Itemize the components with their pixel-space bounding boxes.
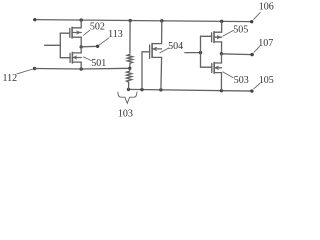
wire gate lead Q502 [60, 32, 70, 34]
wire input stub (inverter 1) [45, 44, 61, 46]
wire 505 drain to rail [221, 21, 223, 32]
wire 504 gate to bottom rail [142, 52, 150, 90]
terminal 107 dot [250, 53, 253, 56]
transistor Q504 bottom contact [152, 56, 162, 58]
svg-text:103: 103 [118, 108, 133, 119]
transistor Q505 bulk lead [214, 36, 222, 38]
transistor Q502 channel bar [71, 27, 73, 38]
label 505 leader [223, 30, 234, 36]
label 106 leader [254, 13, 261, 20]
node inverter 2 gate tie [199, 51, 202, 54]
resistor R lower (of divider 103) [127, 68, 132, 89]
wire 505 source down to node 107 [221, 42, 223, 54]
node common drain 501/502 [80, 45, 83, 48]
transistor Q503 bulk lead [214, 67, 221, 69]
terminal 105 dot [250, 89, 253, 92]
transistor Q502 gate bar [69, 28, 71, 37]
wire gate lead Q505 [201, 35, 212, 37]
label 105 leader [254, 83, 260, 88]
brace 103 [118, 92, 137, 103]
wire 504 drain to rail [152, 21, 162, 44]
wire bottom rail [129, 89, 252, 91]
wire 502 drain to rail [80, 20, 82, 28]
wire node to terminal 107 [222, 53, 253, 56]
svg-text:105: 105 [259, 75, 274, 86]
transistor Q503 bulk arrowhead (points left, NMOS) [215, 66, 218, 69]
wire gate tie vertical (inverter 2) [200, 36, 202, 67]
resistor R upper (of divider 103) [127, 54, 132, 68]
transistor Q501 gate bar [69, 53, 71, 62]
transistor Q503 gate bar [211, 64, 213, 73]
wire resistor column from rail [129, 21, 131, 54]
node resistor midpoint (112 input) [128, 67, 131, 70]
svg-text:502: 502 [90, 22, 105, 33]
transistor Q501 bulk arrowhead (points left, NMOS) [73, 56, 76, 59]
transistor Q504 bulk lead [152, 48, 162, 50]
node bottom rail at 504 gate [140, 88, 143, 91]
wire 502 source down to node 113 [80, 37, 82, 47]
transistor Q503 channel bar [213, 62, 215, 73]
transistor Q501 top contact [72, 52, 81, 54]
label 503 leader [223, 72, 233, 78]
svg-text:501: 501 [91, 58, 106, 69]
svg-text:107: 107 [258, 38, 273, 49]
transistor Q505 bottom contact [214, 41, 222, 43]
svg-text:503: 503 [234, 75, 249, 86]
transistor Q504 bulk arrowhead (points left, NMOS) [153, 47, 156, 50]
label 504 leader [160, 48, 169, 53]
svg-text:113: 113 [108, 29, 123, 40]
node 112 wire at 501 source [80, 67, 83, 70]
wire node to terminal 113 [81, 45, 97, 48]
node top rail left end [33, 18, 36, 21]
node rail junction at 505 drain [220, 20, 223, 23]
svg-text:112: 112 [2, 73, 17, 84]
terminal 112 dot [33, 67, 36, 70]
svg-text:505: 505 [233, 24, 248, 35]
transistor Q505 gate bar [211, 33, 213, 42]
wire top supply rail [35, 20, 252, 22]
svg-text:504: 504 [168, 41, 183, 52]
wire input stub (inverter 2) [185, 52, 201, 54]
transistor Q502 top contact [72, 27, 81, 29]
label 107 leader [254, 47, 260, 53]
wire gate tie vertical (inverter 1) [59, 33, 61, 58]
wire 503 drain up to node 107 [221, 54, 223, 63]
wire input 112 to resistor midpoint [35, 67, 130, 70]
node common drain 503/505 [220, 52, 223, 55]
transistor Q505 channel bar [213, 32, 215, 43]
node rail junction at 502 drain [80, 18, 83, 21]
transistor Q501 bulk lead [72, 57, 81, 59]
label 112 leader [17, 69, 33, 74]
wire 501 source down to 112 wire [80, 62, 82, 69]
terminal 113 dot [96, 45, 99, 48]
wire 504 source to bottom rail [160, 57, 163, 89]
transistor Q504 channel bar [151, 44, 153, 58]
wire gate lead Q501 [60, 57, 70, 59]
label 113 leader [99, 38, 109, 45]
transistor Q504 gate bar [149, 45, 151, 58]
node bottom rail left end (resistor bottom) [127, 88, 130, 91]
node rail junction at 504 drain [160, 19, 163, 22]
transistor Q502 bulk arrowhead (points right, PMOS) [77, 31, 80, 34]
node rail junction at resistor column [129, 19, 132, 22]
node bottom rail at 503 source [220, 89, 223, 92]
transistor Q502 bulk lead [72, 32, 81, 34]
transistor Q501 bottom contact [72, 61, 81, 63]
node bottom rail at 504 source [159, 88, 162, 91]
wire 501 drain up to node 113 [80, 47, 82, 53]
transistor Q505 bulk arrowhead (points right, PMOS) [217, 36, 220, 39]
transistor Q503 top contact [214, 62, 221, 64]
wire gate lead Q503 [201, 66, 212, 68]
wire 503 source to bottom rail [220, 73, 222, 91]
transistor Q503 bottom contact [214, 72, 221, 74]
transistor Q505 top contact [214, 31, 222, 33]
transistor Q501 channel bar [71, 52, 73, 63]
label 501 leader [84, 57, 92, 61]
svg-text:106: 106 [259, 1, 274, 12]
terminal 106 dot [250, 20, 253, 23]
label 502 leader [84, 30, 90, 35]
transistor Q502 bottom contact [72, 36, 81, 38]
